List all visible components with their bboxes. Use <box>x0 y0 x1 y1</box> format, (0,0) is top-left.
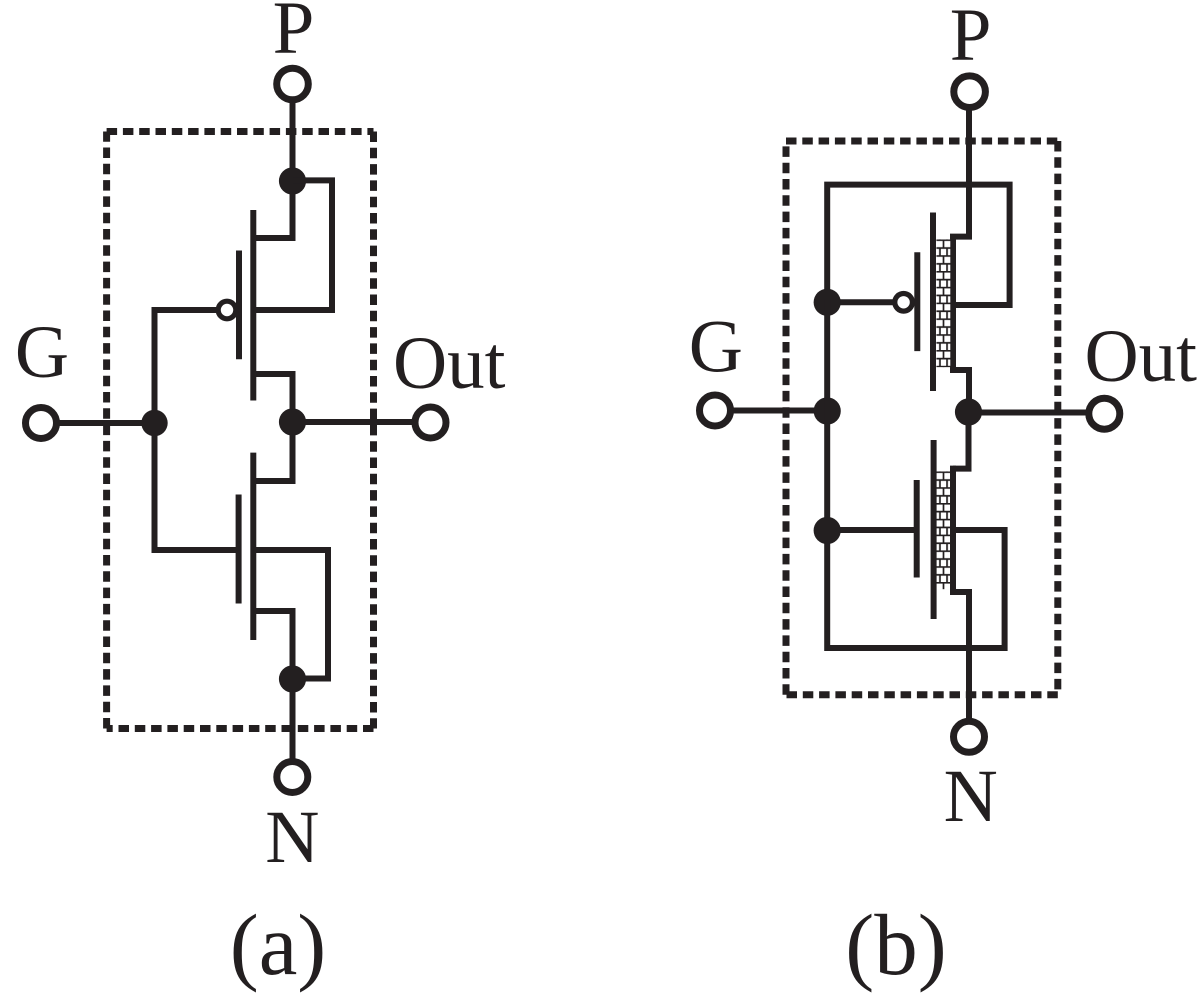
nmos M2 body tie <box>253 550 328 679</box>
pmos M1 gate bubble <box>218 301 236 319</box>
wire node to N terminal (a) <box>290 679 296 762</box>
dashed box (b) <box>786 141 1058 695</box>
svg-text:Out: Out <box>393 322 506 405</box>
T1 channel bar <box>930 213 936 392</box>
T1 control gate bar <box>914 252 920 351</box>
node Out junction dot (b) <box>955 398 982 425</box>
pmos M1 channel bar <box>250 210 256 401</box>
svg-text:(a): (a) <box>230 896 327 993</box>
terminal G (b) <box>700 395 731 426</box>
svg-text:N: N <box>944 755 998 838</box>
gate rail (b) <box>824 299 830 651</box>
node G junction dot (a) <box>141 410 167 436</box>
gate rail (a) <box>152 307 158 553</box>
nmos M2 drain contact <box>253 422 292 481</box>
svg-text:N: N <box>265 796 319 879</box>
wire G (a) <box>57 420 155 426</box>
T1 polarity-gate tie loop <box>827 185 1009 305</box>
svg-text:G: G <box>689 306 743 389</box>
nmos M2 source contact <box>253 611 292 679</box>
pmos M1 body tie <box>253 180 332 310</box>
svg-text:G: G <box>15 311 69 394</box>
svg-text:P: P <box>950 0 992 77</box>
T2 polarity-gate tie loop <box>827 530 1004 648</box>
T1 drain contact <box>953 370 969 412</box>
svg-text:(b): (b) <box>845 896 946 993</box>
T2 source step contact <box>953 592 969 721</box>
node G junction dot (b) <box>814 397 841 424</box>
terminal P (b) <box>954 76 986 108</box>
pmos M1 gate bar <box>236 251 242 360</box>
nmos M2 gate wire <box>155 547 239 553</box>
nmos M2 gate bar <box>236 495 242 604</box>
terminal Out (b) <box>1089 398 1120 429</box>
terminal G (a) <box>26 408 57 439</box>
wire P to node1 (a) <box>290 100 296 181</box>
wire Out (a) <box>293 419 416 425</box>
T1 gate bubble <box>895 294 913 312</box>
node Out junction dot (a) <box>279 408 306 435</box>
T1 hatched polarity-gate channel <box>936 239 950 367</box>
T2 right contact bar <box>950 466 956 595</box>
wire P to transistor T1 (b) <box>966 108 972 237</box>
pmos M1 gate wire <box>155 307 219 313</box>
T1 gate wire <box>827 299 895 305</box>
nmos M2 channel bar <box>250 453 256 640</box>
T2 drain step contact <box>953 412 969 469</box>
T2 gate wire <box>827 527 917 533</box>
T2 hatched polarity-gate channel <box>936 471 950 589</box>
T2 channel bar <box>931 440 937 619</box>
terminal P (a) <box>277 68 309 100</box>
node polarity junction dot (b top) <box>814 289 841 316</box>
node gate junction dot (b bottom) <box>814 517 841 544</box>
pmos M1 drain contact <box>253 374 292 422</box>
node1: P-side junction dot (a) <box>279 167 306 194</box>
terminal N (a) <box>277 762 308 793</box>
T2 control gate bar <box>914 480 920 578</box>
dashed box (a) <box>107 132 374 729</box>
T1 source step contact <box>953 225 969 373</box>
pmos M1 source contact <box>253 181 292 238</box>
svg-text:P: P <box>273 0 315 70</box>
node N-side junction dot (a) <box>279 665 306 692</box>
wire G (b) <box>731 408 828 414</box>
terminal Out (a) <box>415 407 446 438</box>
terminal N (b) <box>954 721 985 752</box>
svg-text:Out: Out <box>1085 315 1198 398</box>
wire Out (b) <box>969 410 1089 416</box>
